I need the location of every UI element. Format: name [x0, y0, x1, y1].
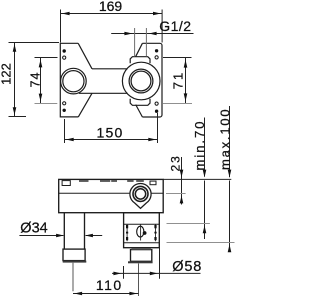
svg-text:Ø34: Ø34: [20, 220, 47, 236]
svg-text:min.70: min.70: [192, 119, 207, 170]
svg-text:74: 74: [29, 72, 43, 88]
svg-text:Ø58: Ø58: [172, 259, 202, 275]
svg-text:G1/2: G1/2: [159, 18, 191, 34]
svg-text:23: 23: [169, 154, 183, 171]
svg-text:71: 71: [171, 71, 186, 89]
svg-text:150: 150: [97, 125, 124, 141]
svg-text:110: 110: [96, 277, 123, 293]
svg-text:169: 169: [99, 0, 123, 14]
svg-text:max.100: max.100: [217, 108, 232, 170]
svg-text:122: 122: [0, 63, 14, 85]
